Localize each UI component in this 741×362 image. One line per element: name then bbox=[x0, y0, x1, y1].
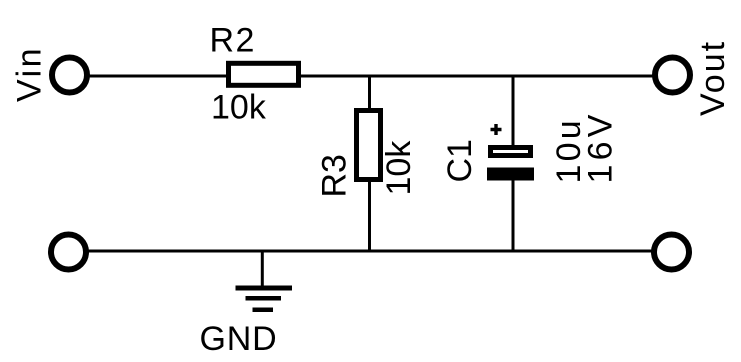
wire top rail Vin to Vout bbox=[70, 75, 673, 78]
svg-text:C1: C1 bbox=[441, 139, 479, 182]
svg-text:16V: 16V bbox=[582, 110, 620, 183]
ground symbol bar 3 bbox=[253, 308, 274, 313]
terminal pad bottom left bbox=[51, 235, 86, 270]
wire C1 bottom segment bbox=[512, 174, 515, 252]
svg-text:R2: R2 bbox=[210, 22, 256, 60]
resistor R2 bbox=[229, 63, 299, 85]
resistor R3 bbox=[357, 111, 381, 180]
wire C1 top segment bbox=[512, 76, 515, 152]
wire GND stub bbox=[261, 252, 264, 288]
wire bottom rail bbox=[69, 250, 672, 253]
wire R3 vertical branch bbox=[368, 76, 371, 252]
terminal pad bottom right bbox=[654, 235, 689, 270]
svg-text:10k: 10k bbox=[380, 140, 418, 196]
capacitor C1 plus sign bbox=[491, 124, 502, 135]
ground symbol bar 1 bbox=[236, 286, 293, 291]
ground symbol bar 2 bbox=[246, 296, 282, 301]
svg-text:GND: GND bbox=[200, 320, 278, 358]
svg-text:R3: R3 bbox=[316, 154, 354, 197]
terminal pad Vin bbox=[52, 58, 87, 93]
capacitor C1 positive plate bbox=[491, 148, 531, 156]
terminal pad Vout bbox=[655, 58, 690, 93]
svg-text:Vin: Vin bbox=[11, 46, 49, 102]
capacitor C1 negative plate bbox=[487, 168, 534, 181]
svg-text:Vout: Vout bbox=[694, 40, 732, 116]
svg-text:10k: 10k bbox=[211, 89, 267, 127]
